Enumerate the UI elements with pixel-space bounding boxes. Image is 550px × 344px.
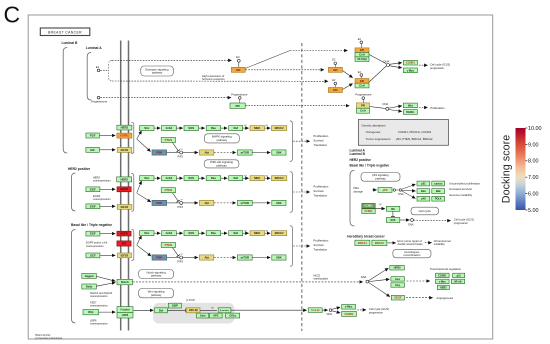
ligand Delta <box>82 284 97 289</box>
receptor HER2 row1 <box>117 125 132 130</box>
label E2 extracellular <box>96 65 100 69</box>
svg-text:APC: APC <box>213 314 219 318</box>
svg-text:BREAST CANCER: BREAST CANCER <box>48 31 82 35</box>
wire SOS-Ras row1 <box>199 127 205 129</box>
svg-text:ERK1/2: ERK1/2 <box>275 127 284 130</box>
label P on PIP3 row3 <box>180 254 183 256</box>
svg-text:Uncontrolled proliferation: Uncontrolled proliferation <box>449 181 481 185</box>
wire repair to chromosomal instability <box>425 242 432 244</box>
svg-text:CoA: CoA <box>359 53 365 57</box>
complex ER (with CoA) <box>355 79 369 84</box>
svg-text:mTOR: mTOR <box>241 151 249 155</box>
svg-text:IGF1R: IGF1R <box>121 148 129 152</box>
svg-text:Translation: Translation <box>313 248 327 252</box>
ligand EGF row2a <box>86 187 100 192</box>
factor TCF/LEF <box>308 308 322 313</box>
label p53 outputs <box>449 181 481 197</box>
receptor EGFR row3 (red) <box>117 231 131 236</box>
gene HER2 (notch target) <box>390 265 405 270</box>
gene Raf row1 <box>229 126 243 131</box>
wire receptors to Shc row2 <box>137 181 142 193</box>
svg-text:10.00: 10.00 <box>528 126 542 132</box>
svg-text:Progesterone: Progesterone <box>91 100 108 104</box>
svg-text:overexpression: overexpression <box>86 244 104 248</box>
panel label C <box>4 2 21 28</box>
node DNA notch <box>366 280 369 283</box>
wire E2 to nuclear ER2 <box>334 85 336 88</box>
wire SOS-Ras row2 <box>199 177 205 179</box>
wire to proliferation (PR) <box>419 107 428 109</box>
node E2 extracellular <box>97 69 100 72</box>
wire DNA to Bax row <box>402 189 416 192</box>
gene Rb <box>386 206 399 211</box>
gene ERK1/2 row2 <box>272 176 287 181</box>
bracket HER2 positive <box>72 173 76 211</box>
svg-text:Translation: Translation <box>313 143 327 147</box>
label E2 on ER-CoA <box>358 71 362 74</box>
gene Grb2 row1 <box>162 126 177 131</box>
wire NICD dashed <box>133 281 363 283</box>
wire receptors to PI3K row3 <box>137 245 151 256</box>
svg-text:overexpression: overexpression <box>93 179 111 183</box>
gene c-Myc (wnt) <box>342 305 356 310</box>
svg-text:CCND1: CCND1 <box>438 274 447 277</box>
gene SOS row3 <box>184 231 199 236</box>
label +p cyclin <box>379 203 382 206</box>
label Notch1 and Notch4 overexpression <box>90 291 113 298</box>
svg-text:p21: p21 <box>457 274 462 277</box>
node DNA progesterone <box>386 107 389 110</box>
label DNA E2F <box>408 223 414 226</box>
svg-text:NF-κB: NF-κB <box>454 280 461 283</box>
gene c-Myc (notch) <box>436 279 450 283</box>
gene S6K row1 <box>272 150 286 155</box>
svg-text:DNA: DNA <box>383 102 389 106</box>
svg-text:E2: E2 <box>332 79 336 82</box>
label +p Raf-MEK row3 <box>244 230 247 232</box>
svg-text:HER2: HER2 <box>120 177 128 181</box>
svg-text:Luminal B: Luminal B <box>350 152 366 156</box>
wire Grb2-SOS row3 <box>177 232 183 234</box>
label subtype list 2 <box>350 158 372 162</box>
wire cyclins to Rb <box>375 207 385 209</box>
node DNA E2F <box>411 219 414 222</box>
wire SOS-Ras row3 <box>199 232 205 234</box>
label PIP3 row3 <box>178 261 184 264</box>
label DNA notch <box>361 275 367 279</box>
wire Shc-Grb2 row3 <box>154 232 160 234</box>
svg-text:PTEN: PTEN <box>165 243 172 247</box>
wire EGF-IGF1R row2 <box>100 205 115 207</box>
wire E2 to ERE stack <box>360 44 362 48</box>
gene APC <box>210 313 222 318</box>
wire outputs dashed row2 <box>293 191 310 193</box>
gene p21 (notch) <box>453 273 465 277</box>
svg-text:Notch: Notch <box>121 280 129 284</box>
svg-text:EGF: EGF <box>90 204 96 208</box>
wire PTEN inhibition row3 <box>173 248 179 256</box>
svg-text:TCF/LEF: TCF/LEF <box>311 310 321 312</box>
svg-text:HER2 positive: HER2 positive <box>68 167 90 171</box>
svg-text:+p: +p <box>265 125 268 127</box>
wire IGF-IGF1R <box>100 149 116 151</box>
wire E2F to DNA <box>400 219 410 221</box>
gene Shc row1 <box>140 126 155 131</box>
wire PTEN inhibition row1 <box>173 143 179 151</box>
svg-text:S6K: S6K <box>276 151 281 155</box>
label Angiogenesis <box>436 296 453 300</box>
gene HER2 (notch grid) <box>437 285 449 289</box>
svg-text:Ras: Ras <box>211 176 217 180</box>
wire GSK3B-bcatenin <box>200 309 217 311</box>
svg-text:Akt: Akt <box>204 151 209 155</box>
wire membrane to Dvl <box>134 309 154 311</box>
svg-text:CK1α: CK1α <box>229 314 236 318</box>
svg-text:PIP3: PIP3 <box>178 206 184 209</box>
svg-text:PI3K: PI3K <box>156 151 163 155</box>
wire E2 to nuclear ER1 <box>334 65 336 68</box>
label LRP6 overexpression <box>90 318 108 325</box>
receptor ER (nuclear 2) <box>328 88 342 93</box>
gene beta-catenin <box>218 308 231 313</box>
wire E2 to ER <box>238 62 240 67</box>
factor AP-1 <box>355 57 369 62</box>
svg-text:mTOR: mTOR <box>241 201 249 205</box>
wire progesterone to nuclear PR <box>362 100 364 103</box>
svg-text:IGF1R: IGF1R <box>121 205 129 209</box>
receptor FGFR1 <box>117 133 132 138</box>
svg-text:overexpression: overexpression <box>90 304 108 308</box>
svg-text:Grb2: Grb2 <box>166 126 173 130</box>
svg-text:CoA: CoA <box>360 109 366 113</box>
svg-text:E2F: E2F <box>391 218 396 222</box>
wire p53 DNA motif <box>396 189 399 191</box>
label EGFR overexpression <box>93 194 111 201</box>
svg-text:CCND1: CCND1 <box>406 61 415 65</box>
label PIP3 row2 <box>178 206 184 209</box>
receptor Frizzled <box>117 307 133 313</box>
svg-text:EGFR: EGFR <box>120 232 127 236</box>
wire dashed ER to nuclear ER1 <box>246 69 325 71</box>
pathway box Cell cycle <box>411 207 439 215</box>
wire mTOR-S6K row2 <box>252 202 270 204</box>
svg-text:Wnt: Wnt <box>408 103 413 107</box>
svg-text:Proliferation: Proliferation <box>313 134 328 138</box>
wire PI3K-PIP3 row1 <box>167 152 180 154</box>
svg-text:Basal like / Triple negative: Basal like / Triple negative <box>71 223 112 227</box>
node progesterone nuclear <box>362 97 365 100</box>
svg-text:EGF: EGF <box>90 187 96 191</box>
svg-text:Akt: Akt <box>204 256 209 260</box>
node p53 DNA 2 <box>399 189 401 191</box>
wire DNA-HER2 notch <box>369 268 389 280</box>
pathway box Wnt signaling pathway <box>139 289 174 298</box>
brace receptors row2 <box>131 174 133 212</box>
svg-text:PR: PR <box>361 104 365 108</box>
node E2 nuclear 1 <box>334 62 337 65</box>
svg-text:PTEN: PTEN <box>165 138 172 142</box>
node E2 nuclear 2 <box>334 82 337 85</box>
pathway box Notch signaling pathway <box>139 270 174 279</box>
wire MEK-ERK row2 <box>265 177 271 179</box>
svg-text:Oncogenes: Oncogenes <box>366 130 381 134</box>
svg-text:damage: damage <box>354 189 364 193</box>
svg-text:+p: +p <box>180 149 183 151</box>
svg-text:Raf: Raf <box>233 126 238 130</box>
label DNA estrogen <box>384 59 390 63</box>
svg-text:KIT: KIT <box>122 241 127 245</box>
wire Shc-Grb2 row1 <box>154 127 160 129</box>
wire Jagged-Notch <box>97 276 116 281</box>
svg-text:Dvl: Dvl <box>159 308 164 312</box>
label cell cycle progression (wnt) <box>369 307 389 314</box>
svg-text:β-catenin: β-catenin <box>220 309 230 312</box>
svg-text:instability: instability <box>434 242 446 246</box>
wire Delta-Notch <box>97 283 116 287</box>
label chromosomal instability <box>434 239 451 246</box>
ligand IGF <box>86 147 100 152</box>
gene Bax <box>417 189 430 194</box>
gene S6K row3 <box>272 255 286 260</box>
svg-text:MEK: MEK <box>254 231 260 235</box>
label DNA damage <box>354 186 364 193</box>
svg-text:Jagged: Jagged <box>85 275 94 278</box>
gene Grb2 row3 <box>162 231 177 236</box>
wire DNA-CCND1 wnt <box>332 311 340 313</box>
svg-text:+p: +p <box>265 175 268 177</box>
wire PTEN inhibition row2 <box>173 193 179 201</box>
svg-text:E2: E2 <box>358 38 362 41</box>
label NICD translocation <box>314 273 329 280</box>
svg-text:pathway: pathway <box>151 274 162 278</box>
svg-text:p53: p53 <box>383 188 388 192</box>
svg-text:Ras: Ras <box>211 126 217 130</box>
wire dashed to ER complex stack <box>290 50 348 52</box>
wire ERE stack to DNA <box>369 55 386 64</box>
wire receptors to Shc row3 <box>137 236 142 245</box>
ligand SCF <box>86 253 100 258</box>
svg-text:progression: progression <box>454 221 469 225</box>
gene Hey <box>391 283 405 287</box>
wire MEK-ERK row1 <box>265 127 271 129</box>
colorbar title Docking score <box>501 135 513 203</box>
wire PIP3-Akt row3 <box>183 257 198 259</box>
wire DNA to Wnt target <box>389 106 402 108</box>
pathway box Estrogen signaling pathway <box>141 66 174 76</box>
svg-text:mTOR: mTOR <box>241 256 249 260</box>
receptor PR (cytoplasm) <box>230 103 245 108</box>
svg-text:E2: E2 <box>236 55 240 59</box>
svg-text:SOS: SOS <box>188 231 194 235</box>
wire ER2 to ER-CoA stack <box>343 84 353 90</box>
wire DNA to p21 row <box>402 184 416 189</box>
gene CCND1 (estrogen target) <box>403 60 417 65</box>
svg-text:Angiogenesis: Angiogenesis <box>436 296 453 300</box>
gene GADD45 <box>432 181 445 186</box>
label FZD7 overexpression <box>90 300 108 307</box>
wire Ras-Raf row3 <box>221 232 227 234</box>
wire FGF-FGFR1 <box>100 135 116 137</box>
wire progesterone dashed to PR <box>100 97 231 99</box>
svg-text:Hey: Hey <box>395 283 400 287</box>
label PIP3 row1 <box>178 156 184 159</box>
label +p GSK3B <box>211 306 214 309</box>
label E2 nuclear 2 <box>332 79 336 82</box>
svg-text:SOS: SOS <box>188 176 194 180</box>
gene Ras row1 <box>206 126 221 131</box>
wire Rb inhibits E2F <box>392 211 394 216</box>
svg-text:POLK: POLK <box>435 198 442 201</box>
wire DNA-Hes <box>369 279 390 281</box>
gene GBP <box>168 303 181 308</box>
pathway box p53 signaling pathway <box>361 173 400 182</box>
ligand FGF <box>86 133 100 138</box>
wire hormone route bottom dashed arrow <box>112 80 328 82</box>
pathway box PI3K-Akt signaling pathway <box>204 160 239 168</box>
svg-text:MEK: MEK <box>254 176 260 180</box>
wire hormone route top dashed arrow <box>112 59 232 61</box>
wire BRCA to repair <box>388 242 396 244</box>
label subtype list 3 <box>350 163 390 167</box>
svg-text:DNA: DNA <box>384 59 390 63</box>
receptor PR (nuclear) <box>357 103 370 108</box>
svg-text:GADD45: GADD45 <box>434 182 443 185</box>
svg-text:DNA: DNA <box>361 275 367 279</box>
gene VEGF <box>391 295 404 300</box>
svg-text:Genetic alterations: Genetic alterations <box>362 124 387 128</box>
label +p MEK-ERK row2 <box>265 175 268 177</box>
wire Akt-mTOR row3 <box>214 257 236 259</box>
receptor ER (nuclear 1) <box>328 67 342 72</box>
label Progesterone extracellular <box>91 100 108 104</box>
label +p Raf-MEK row1 <box>244 125 247 127</box>
node E2 on ER-CoA <box>360 74 363 77</box>
dashed hormone route box left edge <box>109 60 112 81</box>
receptor IGF1R row1 <box>117 147 132 152</box>
bracket Luminal A <box>87 53 91 101</box>
svg-text:Shc: Shc <box>144 231 150 235</box>
svg-text:pathway: pathway <box>217 138 228 142</box>
svg-text:Docking score: Docking score <box>501 135 513 203</box>
svg-text:Wnt: Wnt <box>88 310 93 314</box>
svg-text:PTEN: PTEN <box>165 188 172 192</box>
wire damage to p53 <box>372 189 376 191</box>
svg-text:E2: E2 <box>96 65 100 69</box>
BREAST CANCER title box <box>40 28 90 36</box>
node progesterone cytoplasm <box>239 97 242 100</box>
gene Akt row3 <box>200 255 214 260</box>
brace receptors row1 <box>131 122 133 153</box>
svg-text:EGFR: EGFR <box>120 187 127 191</box>
svg-text:FGFR1, PIK3CA, CCND1: FGFR1, PIK3CA, CCND1 <box>398 130 431 134</box>
gene p21 <box>417 181 430 186</box>
cell membrane outer line <box>120 41 122 331</box>
svg-text:Proliferation: Proliferation <box>430 106 445 110</box>
gene BRCA2 <box>372 240 387 245</box>
gene Raf row2 <box>229 176 243 181</box>
svg-text:FGF: FGF <box>90 134 96 138</box>
gene mTOR row1 <box>237 150 252 155</box>
wire ER1 to ER-CoA stack <box>343 71 353 78</box>
svg-text:PI3K: PI3K <box>156 256 163 260</box>
gene p53 <box>378 188 392 193</box>
bracket p53 section <box>350 171 355 227</box>
wire outputs dashed row1 <box>293 140 310 142</box>
svg-text:AP-1(Sp): AP-1(Sp) <box>357 58 367 61</box>
svg-text:Delta: Delta <box>86 285 93 288</box>
wire PR to nuclear PR <box>246 105 350 107</box>
gene mTOR row3 <box>237 255 252 260</box>
svg-text:MEK: MEK <box>254 126 260 130</box>
gene MEK row2 <box>250 176 265 181</box>
gene MEK row1 <box>250 126 265 131</box>
gene CCND1 (notch) <box>436 273 450 277</box>
svg-text:9.00: 9.00 <box>528 142 539 148</box>
label outputs row1 <box>313 134 328 147</box>
svg-text:Raf: Raf <box>233 176 238 180</box>
gene Akt row1 <box>200 150 214 155</box>
svg-text:+p: +p <box>265 230 268 232</box>
svg-text:IGF: IGF <box>90 148 95 152</box>
label error prone repair <box>398 239 424 246</box>
svg-text:Proliferation: Proliferation <box>313 185 328 189</box>
svg-text:Progesterone: Progesterone <box>231 92 248 96</box>
svg-text:E2: E2 <box>332 59 336 62</box>
svg-text:HER2: HER2 <box>394 266 401 270</box>
svg-text:6.00: 6.00 <box>528 192 539 198</box>
colorbar tick labels <box>526 126 542 214</box>
label Progesterone nuclear <box>355 92 372 96</box>
gene CCND1 (wnt) <box>342 311 357 316</box>
gene Akt row2 <box>200 200 214 205</box>
label DNA progesterone <box>383 102 389 106</box>
svg-text:CoA: CoA <box>359 84 365 88</box>
svg-text:DNA: DNA <box>408 223 414 226</box>
wire ER-CoA stack to DNA <box>369 66 386 82</box>
svg-text:PIP3: PIP3 <box>178 261 184 264</box>
gene PTEN row1 <box>161 137 175 142</box>
label outputs row3 <box>313 239 328 252</box>
wire Akt-mTOR row2 <box>214 202 236 204</box>
svg-text:pathway: pathway <box>151 293 162 297</box>
svg-text:hormone receptors: hormone receptors <box>202 77 225 81</box>
svg-text:translocation: translocation <box>314 277 329 281</box>
ligand Wnt <box>83 310 99 315</box>
wire Ras-Raf row2 <box>221 177 227 179</box>
svg-text:pathway: pathway <box>375 177 386 181</box>
wire Shc-Grb2 row2 <box>154 177 160 179</box>
gene Bak <box>432 189 445 194</box>
svg-text:Bak: Bak <box>436 189 441 193</box>
label Transcriptional regulation <box>430 267 462 271</box>
svg-text:Cell cycle: Cell cycle <box>419 209 432 213</box>
ligand EGF row3 <box>86 231 100 236</box>
label EGFR and/or c-Kit overexpression <box>86 241 107 248</box>
svg-text:+p: +p <box>244 175 247 177</box>
label DNA p53 <box>398 193 404 196</box>
node DNA estrogen <box>387 64 390 67</box>
node E2 cytoplasm <box>237 59 240 62</box>
receptor Notch <box>117 279 133 285</box>
svg-text:Basal like / Triple negative: Basal like / Triple negative <box>350 163 390 167</box>
svg-text:HER2: HER2 <box>121 126 129 130</box>
gene GSK-3beta <box>186 308 200 313</box>
svg-text:Increased survival: Increased survival <box>449 187 472 191</box>
pathway box Homologous recombination <box>393 249 431 257</box>
svg-text:double strand breaks: double strand breaks <box>398 242 424 246</box>
svg-text:c-Myc: c-Myc <box>407 68 415 72</box>
svg-text:GBP: GBP <box>172 304 178 308</box>
